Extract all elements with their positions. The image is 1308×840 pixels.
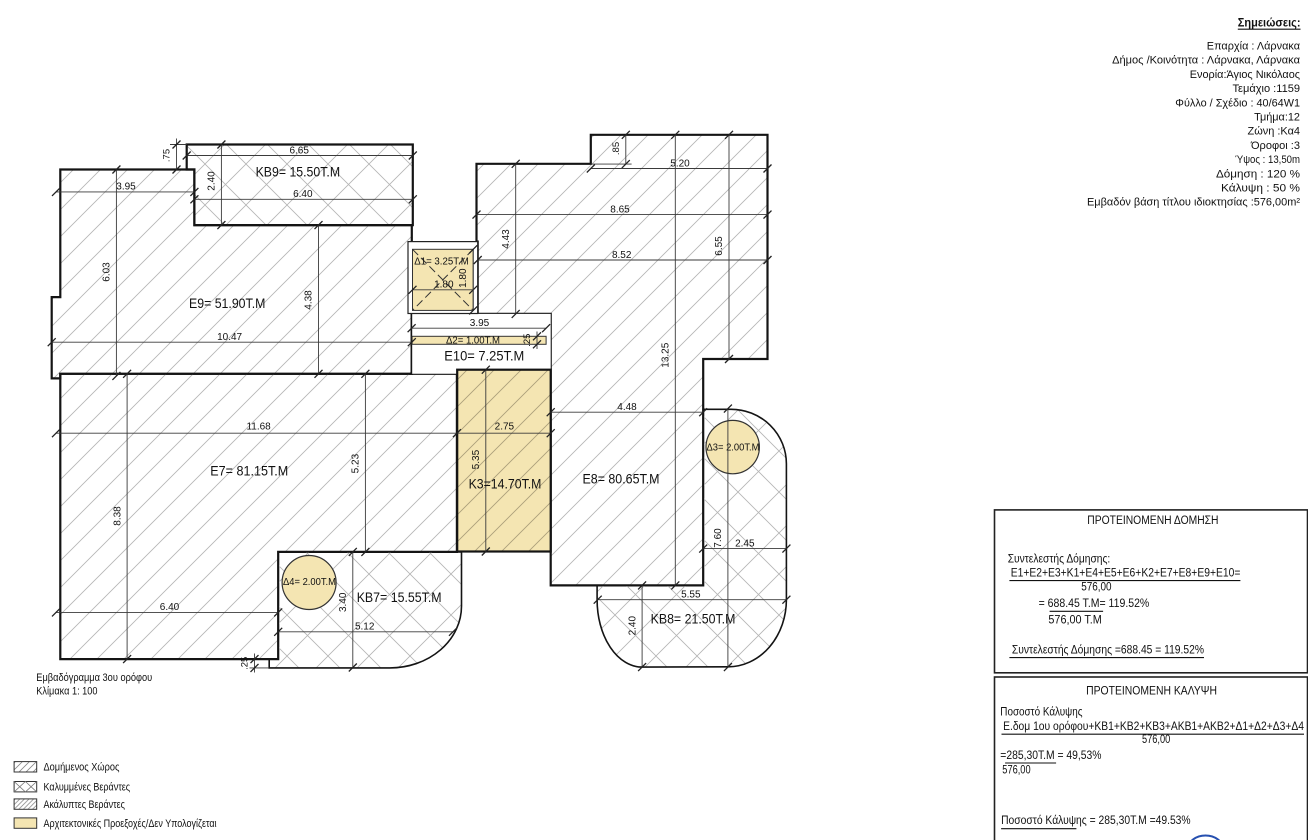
dimension 8.52 of E8	[474, 250, 772, 264]
dimension 2.45 of KB8	[699, 538, 790, 552]
svg-text:Ακάλυπτες Βεράντες: Ακάλυπτες Βεράντες	[44, 799, 125, 811]
dimension 1.80 of Δ1	[409, 280, 478, 294]
dimension 1.80 vertical of Δ1	[458, 245, 477, 314]
svg-text:.75: .75	[162, 149, 173, 162]
svg-text:Δόμηση : 120 %: Δόμηση : 120 %	[1216, 168, 1300, 180]
svg-text:.85: .85	[611, 142, 622, 155]
svg-text:5.35: 5.35	[471, 449, 482, 469]
box1 result line	[1039, 598, 1150, 611]
svg-text:ΚΒ8= 21.50Τ.Μ: ΚΒ8= 21.50Τ.Μ	[651, 610, 736, 626]
box1 conclusion line underlined	[1009, 644, 1204, 657]
svg-text:Δήμος /Κοινότητα : Λάρνακα, Λά: Δήμος /Κοινότητα : Λάρνακα, Λάρνακα	[1112, 55, 1301, 67]
svg-text:Σημειώσεις:: Σημειώσεις:	[1238, 16, 1301, 30]
box2 result line	[1000, 750, 1101, 763]
svg-text:Δ4= 2.00Τ.Μ: Δ4= 2.00Τ.Μ	[283, 577, 336, 588]
dimension 8.65 of E8	[473, 204, 772, 218]
dimension .85 extension line	[591, 163, 632, 165]
dimension 3.40 of KB7	[338, 548, 357, 672]
svg-text:576,00: 576,00	[1142, 734, 1170, 746]
dimension 3.95 of E10	[408, 318, 550, 332]
notes heading	[1238, 16, 1301, 30]
svg-text:4.38: 4.38	[304, 290, 315, 310]
svg-text:ΚΒ9= 15.50Τ.Μ: ΚΒ9= 15.50Τ.Μ	[256, 163, 341, 179]
svg-text:.25: .25	[240, 657, 251, 670]
dimension .85 step of E8	[611, 131, 630, 168]
svg-text:Ζώνη :Κα4: Ζώνη :Κα4	[1248, 126, 1301, 138]
dimension 6.40 of E7	[52, 602, 282, 616]
svg-text:3.40: 3.40	[338, 592, 349, 612]
dimension 4.48 of E8	[547, 402, 708, 416]
room E9 outline (built space, diagonal hatch)	[52, 170, 412, 379]
projection Δ3 yellow circle	[706, 420, 759, 473]
svg-text:2.40: 2.40	[627, 616, 638, 636]
svg-text:Τμήμα:12: Τμήμα:12	[1254, 112, 1300, 124]
svg-text:= 688.45 Τ.Μ= 119.52%: = 688.45 Τ.Μ= 119.52%	[1039, 598, 1150, 610]
svg-text:Συντελεστής Δόμησης:: Συντελεστής Δόμησης:	[1008, 554, 1111, 566]
legend item uncovered verandas	[14, 799, 125, 811]
veranda KB7 outline (covered veranda, cross hatch, rounded corner)	[269, 552, 461, 668]
box2 conclusion line	[1001, 815, 1191, 829]
svg-text:=285,30Τ.Μ = 49,53%: =285,30Τ.Μ = 49,53%	[1000, 750, 1101, 762]
svg-text:576,00 Τ.Μ: 576,00 Τ.Μ	[1048, 614, 1101, 626]
dimension 8.38 of E7	[112, 370, 131, 663]
dimension 10.47 of E9	[48, 332, 416, 346]
veranda KB9 outline (covered veranda, cross hatch)	[187, 145, 413, 226]
dimension 5.35 of K3	[471, 366, 490, 556]
svg-text:8.38: 8.38	[112, 506, 123, 526]
svg-text:Δ1= 3.25Τ.Μ: Δ1= 3.25Τ.Μ	[414, 257, 469, 268]
shaft K3 outline (yellow with diagonal hatch)	[457, 370, 551, 552]
dimension 6.40 of KB9	[190, 189, 416, 203]
svg-text:Κλίμακα 1: 100: Κλίμακα 1: 100	[36, 685, 97, 697]
svg-text:Κάλυψη : 50 %: Κάλυψη : 50 %	[1221, 183, 1300, 195]
veranda KB8 outline (covered veranda, cross hatch, rounded corners)	[597, 409, 786, 667]
svg-text:Δ3= 2.00Τ.Μ: Δ3= 2.00Τ.Μ	[707, 443, 760, 454]
dimension 11.68 and 2.75	[52, 421, 555, 437]
room E7 outline (built space, diagonal hatch)	[60, 374, 457, 659]
svg-text:3.95: 3.95	[470, 318, 490, 329]
svg-text:1.80: 1.80	[434, 280, 454, 291]
svg-text:K3=14.70Τ.Μ: K3=14.70Τ.Μ	[469, 476, 542, 492]
svg-text:2.40: 2.40	[207, 171, 218, 191]
svg-text:11.68: 11.68	[246, 421, 271, 432]
svg-text:Ύψος : 13,50m: Ύψος : 13,50m	[1235, 154, 1300, 166]
svg-text:Εμβαδόν βάση τίτλου ιδιοκτησία: Εμβαδόν βάση τίτλου ιδιοκτησίας :576,00m…	[1087, 197, 1300, 209]
projection Δ4 yellow circle	[282, 556, 336, 610]
svg-text:6.03: 6.03	[102, 262, 113, 282]
svg-text:4.43: 4.43	[501, 229, 512, 249]
box ΠΡΟΤΕΙΝΟΜΕΝΗ ΔΟΜΗΣΗ frame	[995, 510, 1308, 673]
notes text block	[1087, 41, 1301, 209]
legend item architectural projections	[14, 818, 217, 830]
svg-text:2.75: 2.75	[495, 421, 515, 432]
svg-text:2.45: 2.45	[735, 538, 755, 549]
svg-text:Τεμάχιο :1159: Τεμάχιο :1159	[1233, 83, 1301, 95]
svg-text:Ποσοστό Κάλυψης = 285,30Τ.Μ =4: Ποσοστό Κάλυψης = 285,30Τ.Μ =49.53%	[1001, 815, 1191, 827]
svg-text:Επαρχία : Λάρνακα: Επαρχία : Λάρνακα	[1207, 41, 1301, 53]
svg-text:Εμβαδόγραμμα 3ου ορόφου: Εμβαδόγραμμα 3ου ορόφου	[36, 672, 152, 684]
svg-text:4.48: 4.48	[617, 402, 637, 413]
svg-text:6.65: 6.65	[289, 145, 309, 156]
dimension 4.38 of E9	[304, 221, 323, 378]
legend item built space	[14, 762, 119, 774]
svg-text:Φύλλο / Σχέδιο : 40/64W1: Φύλλο / Σχέδιο : 40/64W1	[1175, 97, 1300, 109]
room E10 outline (white area)	[412, 314, 551, 374]
dimension 2.40 of KB9	[207, 141, 226, 230]
svg-text:E9= 51.90Τ.Μ: E9= 51.90Τ.Μ	[189, 295, 265, 311]
svg-text:Ποσοστό Κάλυψης: Ποσοστό Κάλυψης	[1000, 707, 1083, 719]
svg-text:ΠΡΟΤΕΙΝΟΜΕΝΗ ΚΑΛΥΨΗ: ΠΡΟΤΕΙΝΟΜΕΝΗ ΚΑΛΥΨΗ	[1086, 685, 1217, 697]
svg-text:Ενορία:Άγιος Νικόλαος: Ενορία:Άγιος Νικόλαος	[1190, 69, 1300, 81]
dimension 7.60 of KB8	[713, 405, 732, 671]
dimension .25 of Δ2	[522, 332, 541, 350]
dimension 5.20 of E8	[587, 158, 772, 172]
dimension 5.55 of KB8	[594, 590, 791, 604]
svg-text:Καλυμμένες Βεράντες: Καλυμμένες Βεράντες	[44, 782, 131, 794]
svg-text:13.25: 13.25	[661, 342, 672, 367]
svg-text:E7= 81.15Τ.Μ: E7= 81.15Τ.Μ	[210, 463, 288, 479]
svg-text:8.52: 8.52	[612, 250, 632, 261]
svg-text:Δ2= 1.00Τ.Μ: Δ2= 1.00Τ.Μ	[446, 335, 500, 346]
svg-text:3.95: 3.95	[116, 182, 136, 193]
svg-text:Όροφοι :3: Όροφοι :3	[1250, 140, 1300, 152]
dimension 3.95 top of E9	[52, 182, 198, 196]
blue stamp arc bottom right	[1188, 836, 1223, 840]
dimension 6.65 of KB9	[183, 145, 417, 159]
box2 formula line underlined	[1002, 721, 1305, 734]
svg-text:5.20: 5.20	[670, 158, 690, 169]
svg-text:E8= 80.65Τ.Μ: E8= 80.65Τ.Μ	[583, 471, 660, 487]
svg-text:Δομήμενος Χώρος: Δομήμενος Χώρος	[44, 762, 120, 774]
svg-text:6.55: 6.55	[714, 236, 725, 256]
dimension 13.25 of E8	[661, 131, 680, 590]
svg-text:10.47: 10.47	[217, 332, 242, 343]
projection Δ2 yellow strip	[412, 336, 546, 344]
svg-text:Ε.δομ 1ου ορόφου+ΚΒ1+ΚΒ2+ΚΒ3+Α: Ε.δομ 1ου ορόφου+ΚΒ1+ΚΒ2+ΚΒ3+ΑΚΒ1+ΑΚΒ2+Δ…	[1003, 721, 1304, 733]
svg-text:576,00: 576,00	[1002, 764, 1030, 776]
svg-text:Ε1+Ε2+Ε3+Κ1+Ε4+Ε5+Ε6+Κ2+Ε7+Ε8+: Ε1+Ε2+Ε3+Κ1+Ε4+Ε5+Ε6+Κ2+Ε7+Ε8+Ε9+Ε10=	[1011, 568, 1241, 580]
box ΠΡΟΤΕΙΝΟΜΕΝΗ ΚΑΛΥΨΗ frame	[995, 677, 1308, 840]
svg-text:1.80: 1.80	[458, 268, 469, 288]
dimension .25 step of KB7	[240, 654, 270, 673]
dimension 4.43 of E8	[501, 160, 520, 318]
wall E10 left edge	[410, 314, 412, 374]
room E8 outline (built space, diagonal hatch)	[477, 135, 768, 586]
svg-text:5.55: 5.55	[681, 590, 701, 601]
dimension 2.40 of KB8	[627, 581, 646, 671]
svg-text:5.12: 5.12	[355, 622, 375, 633]
projection Δ1 yellow box with dashed diagonals	[413, 249, 474, 310]
svg-text:Συντελεστής Δόμησης =688.45 =: Συντελεστής Δόμησης =688.45 = 119.52%	[1012, 644, 1204, 656]
svg-text:E10= 7.25Τ.Μ: E10= 7.25Τ.Μ	[444, 348, 524, 364]
dimension 5.23 of E7	[351, 370, 370, 556]
svg-text:ΠΡΟΤΕΙΝΟΜΕΝΗ ΔΟΜΗΣΗ: ΠΡΟΤΕΙΝΟΜΕΝΗ ΔΟΜΗΣΗ	[1087, 515, 1218, 527]
dimension 6.03 of E9	[102, 166, 121, 380]
legend item covered verandas	[14, 782, 130, 794]
svg-text:5.23: 5.23	[351, 453, 362, 473]
svg-text:Αρχιτεκτονικές Προεξοχές/Δεν Υ: Αρχιτεκτονικές Προεξοχές/Δεν Υπολογίζετα…	[44, 818, 218, 830]
svg-text:7.60: 7.60	[713, 528, 724, 548]
dimension .75 step	[162, 139, 187, 174]
dimension 6.55 of E8	[714, 131, 733, 363]
svg-text:.25: .25	[522, 334, 533, 347]
projection Δ1 outer box	[408, 242, 478, 314]
svg-text:6.40: 6.40	[293, 189, 313, 200]
svg-text:8.65: 8.65	[610, 204, 630, 215]
box1 formula line underlined	[1009, 568, 1240, 581]
svg-text:6.40: 6.40	[160, 602, 180, 613]
svg-text:576,00: 576,00	[1081, 582, 1111, 594]
svg-text:ΚΒ7= 15.55Τ.Μ: ΚΒ7= 15.55Τ.Μ	[357, 589, 442, 605]
dimension 5.12 of KB7	[274, 622, 457, 636]
